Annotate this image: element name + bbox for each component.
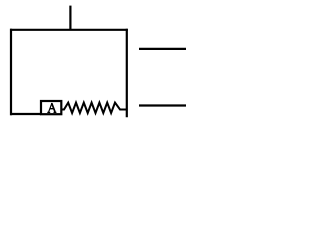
wire right side of loop — [126, 29, 128, 118]
wire bottom side of loop — [10, 113, 41, 115]
wire top lead — [69, 6, 71, 30]
ammeter A — [41, 101, 61, 114]
wire left side of loop — [10, 29, 12, 116]
wire terminal line 2 (lower right) — [139, 104, 186, 106]
resistor R — [61, 103, 126, 113]
wire terminal line 1 (upper right) — [139, 48, 186, 50]
wire top side of loop — [10, 29, 128, 31]
